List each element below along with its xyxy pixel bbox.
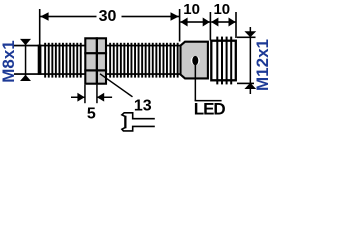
leader line to 13 <box>100 74 133 97</box>
M12x1 top arrowhead <box>244 31 256 37</box>
dimension 30: extension line left <box>39 9 41 45</box>
second 10 left arrowhead <box>211 18 218 27</box>
thread bars left segment <box>44 43 82 78</box>
svg-text:13: 13 <box>134 97 152 114</box>
wrench icon (13 A/F spanner) <box>122 113 155 131</box>
M12 thread ribs <box>216 37 232 85</box>
dimension 30 right arrowhead <box>171 12 179 20</box>
extension line between the 10s <box>210 12 212 41</box>
barrel bottom edge + M8 bottom extension line <box>14 73 181 75</box>
connector housing <box>181 42 208 79</box>
svg-text:M8x1: M8x1 <box>0 40 18 83</box>
nut middle vertical line <box>96 37 98 84</box>
svg-text:30: 30 <box>99 8 117 25</box>
dimension 5: left extension line <box>84 85 86 104</box>
dimension 5 right arrowhead (pointing left) <box>97 93 104 102</box>
first 10 right arrowhead <box>203 18 210 27</box>
first 10 left arrowhead <box>180 18 187 27</box>
LED dot <box>191 56 200 65</box>
dimension 5 left arrowhead (pointing right) <box>77 93 84 102</box>
thread bars right segment <box>109 43 178 78</box>
M12 thread section outline <box>211 41 236 81</box>
dimension 10 first: line <box>180 21 210 23</box>
dimension 30 line left segment <box>40 16 96 18</box>
nut inner horizontal line lower <box>84 69 107 71</box>
M12x1 dimension: top extension line <box>237 37 256 39</box>
nut inner horizontal line upper <box>84 52 107 54</box>
M8x1 dimension: vertical line <box>25 40 27 81</box>
svg-text:5: 5 <box>87 106 96 123</box>
dimension 5: left tail line <box>71 97 85 99</box>
second 10 right arrowhead <box>229 18 236 27</box>
svg-text:10: 10 <box>213 1 230 18</box>
hex nut body <box>85 38 106 83</box>
svg-text:M12x1: M12x1 <box>253 39 272 91</box>
dimension 5: right tail line <box>98 97 113 99</box>
M8x1 bottom arrowhead <box>20 75 31 81</box>
dimension 30: extension line right (shared with 10) <box>179 9 181 42</box>
svg-text:LED: LED <box>194 99 226 118</box>
sensing face black band <box>38 45 42 75</box>
extension line right of second 10 <box>235 12 237 38</box>
M12x1 vertical line <box>250 27 252 94</box>
dimension 30 left arrowhead <box>40 12 48 20</box>
barrel top edge + M8 top extension line <box>14 45 181 47</box>
M8x1 top arrowhead <box>20 39 31 45</box>
M12x1 bottom arrowhead <box>244 83 256 89</box>
dimension 5: right extension line <box>96 85 98 104</box>
svg-text:10: 10 <box>183 1 200 18</box>
dimension 30 line right segment <box>122 16 180 18</box>
LED leader line <box>195 64 197 101</box>
M12x1 bottom extension line <box>237 83 254 85</box>
dimension 10 second: line <box>211 21 236 23</box>
